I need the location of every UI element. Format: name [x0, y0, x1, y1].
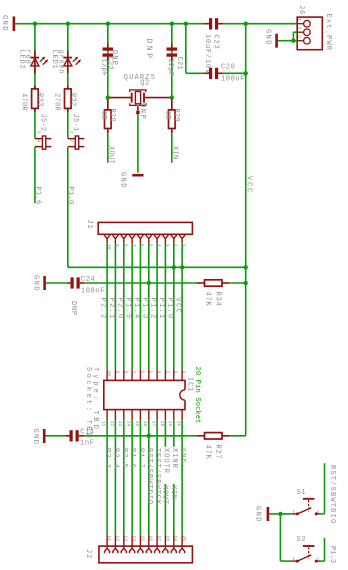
- svg-text:GND: GND: [0, 15, 8, 32]
- wire P1.6 chain upper: [34, 24, 36, 139]
- svg-text:13: 13: [123, 535, 129, 541]
- svg-text:DNP: DNP: [110, 50, 118, 66]
- junction dots on GND rail: [33, 22, 248, 26]
- svg-text:P2.2: P2.2: [99, 298, 107, 320]
- svg-text:XOUTR: XOUTR: [161, 448, 169, 474]
- svg-text:P1.6: P1.6: [33, 187, 41, 205]
- svg-text:P1.4: P1.4: [132, 298, 140, 320]
- svg-text:12: 12: [109, 421, 115, 427]
- svg-text:4: 4: [156, 370, 162, 373]
- wire R27 to VCC: [229, 435, 246, 437]
- ground symbol GND (C14): [31, 429, 44, 446]
- switch S1: [291, 489, 319, 515]
- svg-text:3: 3: [164, 370, 170, 373]
- svg-text:19: 19: [173, 535, 179, 541]
- wires J1 pins down to socket IC1: [107, 244, 182, 369]
- svg-text:P1.7: P1.7: [136, 448, 144, 469]
- svg-text:P1.3: P1.3: [140, 298, 148, 320]
- svg-text:10: 10: [106, 370, 112, 376]
- svg-text:C21: C21: [175, 57, 183, 71]
- wire C20 branch from GND rail: [185, 24, 187, 74]
- svg-text:R29: R29: [172, 109, 180, 123]
- svg-text:1nF: 1nF: [80, 439, 94, 447]
- svg-text:5: 5: [148, 370, 154, 373]
- svg-text:GND: GND: [263, 29, 271, 46]
- svg-text:100nF: 100nF: [81, 288, 105, 296]
- capacitor C21 12pF (DNP): [144, 24, 183, 98]
- svg-text:J5-2: J5-2: [38, 114, 46, 132]
- svg-text:1: 1: [296, 18, 302, 21]
- svg-text:VCC: VCC: [245, 176, 253, 194]
- svg-text:GND: GND: [253, 506, 261, 523]
- net labels on socket bottom wires: [103, 448, 186, 505]
- capacitor C20 100nF: [205, 64, 246, 84]
- svg-text:3: 3: [296, 35, 302, 38]
- svg-text:1: 1: [292, 556, 295, 562]
- svg-text:19: 19: [167, 421, 173, 427]
- LED LED2 (red): [17, 50, 48, 74]
- svg-text:P1.3: P1.3: [328, 546, 336, 563]
- svg-text:red: red: [24, 50, 32, 65]
- J2 pin contacts and numbers: [105, 535, 188, 553]
- wire J6 pins 2,3 to ground: [278, 32, 297, 41]
- junction dot switch ground: [278, 512, 282, 516]
- svg-text:R34: R34: [214, 292, 222, 307]
- wire P1.0 / VCC horizontal rail: [68, 266, 246, 268]
- crystal case pin to ground (DNP): [136, 103, 146, 173]
- svg-text:20: 20: [176, 421, 182, 427]
- ground symbol GND (crystal case): [119, 172, 144, 189]
- svg-text:15: 15: [139, 535, 145, 541]
- svg-text:16: 16: [142, 421, 148, 427]
- svg-text:GND: GND: [31, 275, 39, 292]
- junction dot VCC/R34: [244, 281, 248, 285]
- resistor R28 0R: [99, 98, 116, 133]
- connector J2 header: [84, 546, 192, 563]
- svg-text:XIN: XIN: [169, 485, 177, 499]
- svg-text:2: 2: [317, 556, 320, 562]
- svg-text:18: 18: [159, 421, 165, 427]
- switch S2: [291, 536, 319, 562]
- svg-text:J5-1: J5-1: [71, 114, 79, 132]
- svg-text:20: 20: [181, 535, 187, 541]
- ground symbol GND (top-left): [0, 15, 14, 32]
- svg-text:DNP: DNP: [144, 39, 153, 61]
- svg-text:8: 8: [123, 370, 129, 373]
- capacitor C24 100nF (DNP): [46, 276, 105, 316]
- J1 pin contacts and numbers: [105, 234, 187, 250]
- svg-text:470R: 470R: [20, 93, 28, 112]
- svg-text:J2: J2: [84, 549, 92, 559]
- svg-text:14: 14: [131, 535, 137, 541]
- svg-text:11: 11: [106, 535, 112, 541]
- svg-text:1: 1: [181, 370, 187, 373]
- svg-text:TEST/SBWTCK: TEST/SBWTCK: [153, 448, 161, 505]
- wire S2 to net P1.3: [320, 538, 325, 561]
- svg-text:DNP: DNP: [69, 301, 77, 316]
- net labels on J1 wires: [99, 298, 182, 320]
- svg-text:P1.6: P1.6: [128, 448, 136, 469]
- svg-text:3: 3: [36, 131, 42, 134]
- svg-text:P1.2: P1.2: [149, 298, 157, 320]
- wires J2 pins 18,19 up (XOUT/XIN): [165, 484, 173, 535]
- IC socket IC1 20 Pin Socket: [104, 367, 201, 424]
- svg-text:C23: C23: [211, 35, 219, 50]
- svg-text:2: 2: [173, 370, 179, 373]
- junction dots P1.0 rail / VCC rail: [172, 265, 248, 269]
- svg-text:17: 17: [151, 421, 157, 427]
- wire P1.0 chain lower: [67, 147, 69, 267]
- capacitor C22 12pF (DNP): [99, 24, 118, 98]
- jumper J5-2: [35, 114, 52, 150]
- svg-text:GND: GND: [31, 429, 39, 446]
- svg-text:P2.4: P2.4: [111, 448, 119, 469]
- svg-text:47K: 47K: [203, 292, 211, 307]
- svg-text:6: 6: [139, 370, 145, 373]
- IC1 bottom pins and numbers: [101, 410, 183, 427]
- svg-text:16: 16: [148, 535, 154, 541]
- svg-text:Q2: Q2: [140, 80, 150, 88]
- capacitor C23 10uF/10V: [203, 18, 223, 74]
- svg-text:270R: 270R: [53, 93, 61, 112]
- crystal Q2 QUARZ5: [108, 74, 172, 106]
- svg-text:S2: S2: [297, 536, 307, 544]
- resistor R32 270R: [53, 86, 77, 113]
- wire VCC to J6 pin1: [223, 23, 297, 25]
- svg-text:20 Pin Socket: 20 Pin Socket: [193, 367, 201, 424]
- svg-text:XOUT: XOUT: [161, 485, 169, 504]
- wire S1 to net RST/SBWTDIO: [320, 463, 325, 514]
- svg-text:13: 13: [117, 421, 123, 427]
- svg-text:R32: R32: [69, 93, 77, 107]
- svg-text:14: 14: [126, 421, 132, 427]
- svg-text:R27: R27: [214, 445, 222, 460]
- svg-text:RST/SBWTDIO: RST/SBWTDIO: [145, 448, 153, 505]
- svg-text:XINR: XINR: [170, 448, 178, 469]
- svg-text:100nF: 100nF: [221, 75, 245, 83]
- svg-text:2: 2: [68, 139, 74, 142]
- svg-text:1: 1: [68, 131, 74, 134]
- svg-text:0R: 0R: [99, 111, 107, 121]
- svg-text:P2.1: P2.1: [107, 298, 115, 320]
- wire GND top rail: [15, 23, 204, 25]
- wire C20 to VCC line: [223, 72, 246, 74]
- svg-text:2: 2: [296, 27, 302, 30]
- ground symbol GND (C24): [31, 275, 44, 292]
- svg-text:C20: C20: [221, 64, 235, 72]
- svg-text:0R: 0R: [163, 111, 171, 121]
- svg-text:R28: R28: [108, 109, 116, 123]
- svg-text:DNP: DNP: [138, 103, 146, 120]
- junction dot VCC/C20: [244, 71, 248, 75]
- svg-text:R33: R33: [36, 93, 44, 107]
- svg-text:XIN: XIN: [170, 146, 178, 160]
- svg-text:11: 11: [101, 421, 107, 427]
- ground symbol GND (switches): [253, 506, 268, 523]
- svg-text:P1.1: P1.1: [157, 298, 165, 320]
- svg-text:GND: GND: [178, 448, 186, 464]
- svg-text:4: 4: [36, 139, 42, 142]
- junction dot P1.3 column: [147, 281, 151, 285]
- svg-text:J6: J6: [297, 5, 305, 15]
- capacitor C14 1nF: [46, 429, 95, 448]
- jumper J5-1: [68, 114, 85, 150]
- svg-text:S1: S1: [297, 489, 307, 497]
- wire P1.3 net to R34: [85, 282, 197, 284]
- wire R34 to VCC: [229, 282, 246, 284]
- svg-text:P1.5: P1.5: [124, 298, 132, 320]
- svg-text:P2.5: P2.5: [120, 448, 128, 469]
- resistor R27 47K: [197, 433, 229, 460]
- junction dot J6 ground: [291, 39, 295, 43]
- svg-text:GND: GND: [119, 172, 127, 189]
- wire RST net to R27: [84, 435, 197, 437]
- svg-text:green: green: [56, 50, 64, 75]
- wire VCC vertical line: [245, 24, 247, 436]
- svg-text:P2.3: P2.3: [103, 448, 111, 469]
- resistor R33 470R: [20, 86, 44, 113]
- wire / net label XIN: [170, 133, 178, 163]
- junction dots crystal node XOUT / XIN: [106, 95, 174, 99]
- wire P1.6 chain lower: [34, 147, 36, 203]
- svg-text:2: 2: [317, 509, 320, 515]
- svg-text:9: 9: [114, 370, 120, 373]
- svg-text:J1: J1: [85, 220, 93, 230]
- svg-text:15: 15: [134, 421, 140, 427]
- svg-text:Ext_PWR: Ext_PWR: [324, 14, 332, 52]
- svg-text:12: 12: [114, 535, 120, 541]
- connector J6 Ext_PWR: [296, 5, 332, 51]
- svg-text:18: 18: [164, 535, 170, 541]
- wire P1.0 chain upper: [67, 24, 69, 139]
- wire / net label XOUT: [106, 133, 114, 164]
- svg-text:47K: 47K: [203, 445, 211, 460]
- svg-text:P1.0: P1.0: [165, 298, 173, 320]
- svg-text:XOUT: XOUT: [106, 146, 114, 164]
- svg-text:7: 7: [131, 370, 137, 373]
- svg-text:17: 17: [156, 535, 162, 541]
- text Socket: TBD / Type: TBD: [84, 367, 99, 440]
- svg-text:12pF: 12pF: [166, 59, 174, 77]
- svg-text:IC1: IC1: [186, 377, 194, 392]
- resistor R34 47K: [197, 280, 229, 307]
- svg-text:1: 1: [292, 509, 295, 515]
- svg-text:P2.0: P2.0: [115, 298, 123, 320]
- ground symbol GND (J6): [263, 29, 276, 48]
- IC1 top pins and numbers: [106, 369, 187, 380]
- connector J1 header: [85, 220, 192, 235]
- svg-text:Type: TBD: Type: TBD: [91, 367, 99, 432]
- wires IC1 bottom pins down: [107, 420, 182, 535]
- svg-text:RST/SBWTDIO: RST/SBWTDIO: [328, 465, 336, 524]
- resistor R29 0R: [163, 98, 180, 133]
- svg-text:VCC: VCC: [174, 298, 182, 315]
- wire GND to S1/S2: [269, 514, 291, 561]
- svg-text:P1.0: P1.0: [66, 187, 74, 205]
- LED LED1 (green): [50, 50, 81, 75]
- junction dot RST column: [147, 434, 151, 438]
